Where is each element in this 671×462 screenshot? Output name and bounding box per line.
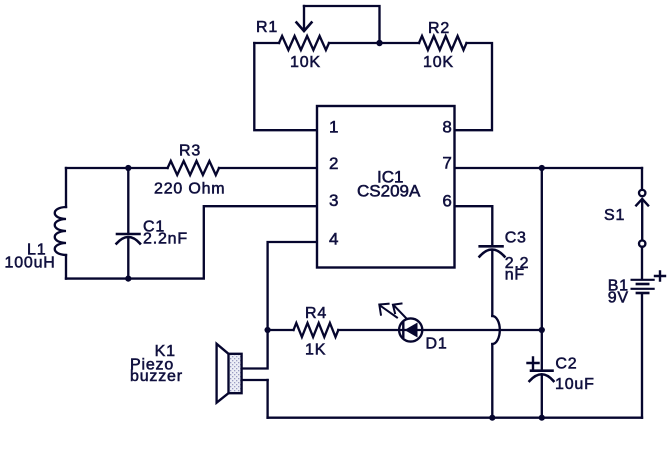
svg-text:buzzer: buzzer [130,368,183,385]
wire R4 left lead [268,329,294,331]
potentiometer R1 wiper arrow [297,6,312,31]
svg-text:220 Ohm: 220 Ohm [154,181,225,198]
svg-text:8: 8 [442,118,451,137]
capacitor C2 [528,358,554,382]
svg-text:S1: S1 [604,207,625,224]
svg-text:1: 1 [329,118,338,137]
svg-text:3: 3 [329,191,338,210]
svg-text:10K: 10K [290,54,321,71]
wire left rail below L1 [65,255,67,279]
node C1 bottom junction [125,276,131,282]
capacitor C3 [480,246,505,256]
speaker K1 piezo buzzer [217,344,268,403]
svg-text:R3: R3 [179,143,201,160]
resistor R1 [279,36,329,50]
node rail/R4 wire junction [539,327,545,333]
wire bottom of tank loop to pin 3 [66,206,317,278]
wire LED D1 to rail junction [422,329,542,331]
wire R3 to pin 2 [219,167,317,169]
LED D1 [379,304,422,342]
wire bottom rail [268,417,642,419]
svg-text:4: 4 [329,229,338,248]
resistor R2 [419,36,467,50]
wire right rail above S1 [641,168,643,190]
wire R1 left to pin 1 [254,43,317,130]
svg-text:R2: R2 [428,20,450,37]
wire top left lead [254,42,279,44]
svg-text:9V: 9V [608,289,629,306]
node pin7/rail junction [539,165,545,171]
wire hop to bottom rail [491,344,493,418]
wire pin 7 to right rail [455,167,643,169]
node C3/bottom rail junction [489,415,495,421]
wire battery to bottom rail [641,294,643,418]
svg-text:D1: D1 [426,336,448,353]
node C2/bottom rail junction [539,415,545,421]
wire C2 to bottom rail [541,377,543,418]
wire hop over R4 line [492,316,500,344]
svg-text:R1: R1 [256,19,278,36]
wire speaker lower stub down to bottom rail [266,380,268,418]
switch S1 [636,190,648,247]
wire S1 to battery [641,247,643,279]
resistor R3 [168,161,219,175]
wire rail pin7 junction down to R4 junction [541,168,543,330]
resistor R4 [294,323,339,337]
op-amp IC1 CS209A box [317,106,455,268]
svg-text:100uH: 100uH [5,255,56,272]
wire wiper overhead loop [304,6,380,43]
node C1 top junction [125,165,131,171]
wire pin 2 net left segment [66,167,168,169]
svg-text:R4: R4 [305,305,327,322]
svg-text:10K: 10K [423,54,454,71]
svg-text:2: 2 [329,154,338,173]
svg-text:C3: C3 [505,230,527,247]
wire pin 4 net [268,242,317,330]
svg-text:10uF: 10uF [555,376,595,393]
capacitor C1 [117,168,141,279]
wire left rail above L1 [65,168,67,207]
wire R4 to LED D1 [338,329,399,331]
svg-text:7: 7 [442,153,451,172]
wire C3 down to hop [491,252,493,317]
wire R1 to junction [329,42,380,44]
svg-text:6: 6 [442,192,451,211]
svg-text:nF: nF [505,267,525,284]
svg-text:1K: 1K [305,342,326,359]
wire junction down to speaker upper stub [242,330,268,369]
wire pin 6 to C3 [455,206,493,246]
svg-text:2.2nF: 2.2nF [143,231,188,248]
wire junction down to C2 [541,330,543,371]
inductor L1 [55,207,66,255]
svg-text:C2: C2 [555,356,577,373]
node pin4/R4/speaker junction [265,327,271,333]
svg-text:CS209A: CS209A [357,182,421,201]
battery B1 [632,272,665,294]
wire junction to R2 [380,42,420,44]
wire R2 to pin 8 [455,43,493,130]
node R1/R2/wiper junction [376,40,382,46]
